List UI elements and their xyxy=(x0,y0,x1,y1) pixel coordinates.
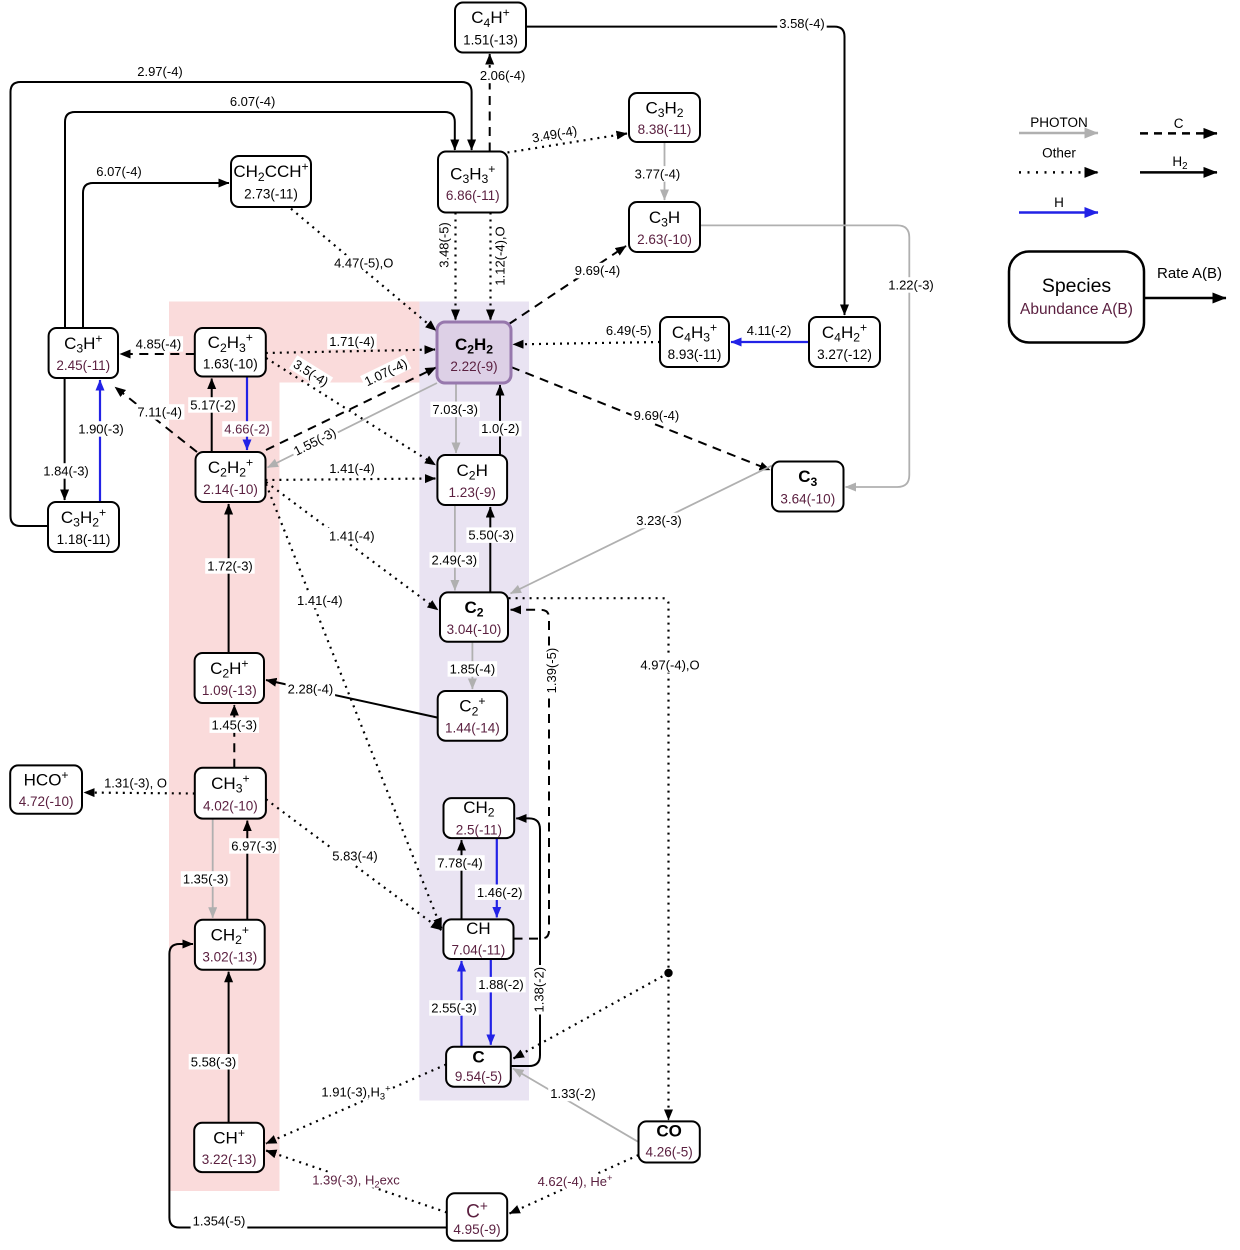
label 4.66(-2) xyxy=(222,421,272,437)
label 1.71(-4) xyxy=(327,334,377,350)
svg-text:5.50(-3): 5.50(-3) xyxy=(468,528,514,543)
svg-text:4.72(-10): 4.72(-10) xyxy=(19,794,74,809)
arrow C3H to C3 (PHOTON) 1.22(-3) xyxy=(700,225,909,487)
svg-text:3.77(-4): 3.77(-4) xyxy=(635,166,681,181)
species C2H+ xyxy=(195,653,264,703)
svg-text:1.85(-4): 1.85(-4) xyxy=(450,662,496,677)
label 1.45(-3) xyxy=(210,717,260,733)
svg-text:2.14(-10): 2.14(-10) xyxy=(203,482,258,497)
arrow C3H2+ to C3H3+ (H2) 2.97(-4) xyxy=(11,82,472,526)
arrow CH2+ to CH3+ (H2) 6.97(-3) xyxy=(246,821,248,920)
species C3H3+ xyxy=(438,152,508,213)
label 1.41(-4) xyxy=(327,528,377,544)
label 6.07(-4) xyxy=(228,94,278,110)
arrow C2H to C2H2 (H2) 1.0(-2) xyxy=(499,385,501,455)
arrow CH3+ to CH2+ (PHOTON) 1.35(-3) xyxy=(212,819,214,918)
label 1.39(-5) xyxy=(544,646,560,696)
label 3.49(-4) xyxy=(529,122,580,146)
species CH xyxy=(443,919,513,959)
arrow C2H2+ to C2H2 (C) 1.07(-4) xyxy=(266,368,436,451)
label 1.35(-3) xyxy=(181,871,231,887)
arrow C2H3+ to C2H2 (Other) 1.71(-4) xyxy=(266,350,435,354)
svg-text:6.07(-4): 6.07(-4) xyxy=(230,94,276,109)
arrow C2H+ to C2H2+ (H2) 1.72(-3) xyxy=(228,504,230,653)
svg-text:3.02(-13): 3.02(-13) xyxy=(202,950,257,965)
label 7.11(-4) xyxy=(135,404,185,420)
label 2.97(-4) xyxy=(135,64,185,79)
label 1.55(-3) xyxy=(289,423,340,459)
svg-text:4.85(-4): 4.85(-4) xyxy=(136,337,182,352)
svg-text:3.27(-12): 3.27(-12) xyxy=(817,347,872,362)
label 9.69(-4) xyxy=(632,408,682,424)
svg-text:3.23(-3): 3.23(-3) xyxy=(636,513,682,528)
arrow CH to C2 (C) 1.39(-5) xyxy=(511,610,549,939)
arrow C3H3+ to C3H2 (Other) 3.49(-4) xyxy=(508,134,628,153)
arrow C to CH (H) 2.55(-3) xyxy=(460,961,462,1047)
svg-text:4.47(-5),O: 4.47(-5),O xyxy=(334,256,393,271)
arrow C3H2 to C3H (PHOTON) 3.77(-4) xyxy=(664,142,666,200)
arrow C2H3+ to C2H2+ (H) 4.66(-2) xyxy=(246,377,248,451)
svg-text:5.17(-2): 5.17(-2) xyxy=(190,398,236,413)
arrow C3H3+ to C2H2 (Other) 1.12(-4),O xyxy=(489,213,491,321)
svg-text:3.58(-4): 3.58(-4) xyxy=(779,16,825,31)
label 1.84(-3) xyxy=(41,463,90,479)
label 1.31(-3), O xyxy=(102,775,169,791)
legend PHOTON arrow xyxy=(1019,115,1098,133)
legend Species box xyxy=(1009,252,1144,343)
legend Rate arrow xyxy=(1144,265,1226,298)
label 1.72(-3) xyxy=(205,558,255,574)
svg-text:3.04(-10): 3.04(-10) xyxy=(447,622,502,637)
svg-text:2.22(-9): 2.22(-9) xyxy=(450,359,497,374)
arrow CH to C (H) 1.88(-2) xyxy=(490,959,492,1045)
svg-text:7.78(-4): 7.78(-4) xyxy=(437,856,483,871)
arrow C2H2 to C2H2+ (PHOTON) 1.55(-3) xyxy=(268,383,438,468)
svg-text:4.62(-4), He+: 4.62(-4), He+ xyxy=(538,1172,613,1189)
arrow C4H+ to C4H2+ (H2) 3.58(-4) xyxy=(526,27,845,315)
label 1.91(-3),H3+ xyxy=(319,1083,392,1102)
arrow CH3+ to CH (Other) 5.83(-4) xyxy=(266,799,441,930)
svg-text:9.54(-5): 9.54(-5) xyxy=(455,1069,502,1084)
legend H2 arrow xyxy=(1140,154,1217,172)
species CH3+ xyxy=(195,768,266,819)
svg-text:Rate A(B): Rate A(B) xyxy=(1157,265,1222,282)
svg-text:7.11(-4): 7.11(-4) xyxy=(137,405,182,420)
svg-text:1.44(-14): 1.44(-14) xyxy=(445,721,500,736)
svg-text:2.45(-11): 2.45(-11) xyxy=(56,358,110,373)
species C3H2 xyxy=(629,93,700,142)
label 1.85(-4) xyxy=(448,661,498,677)
svg-text:3.48(-5): 3.48(-5) xyxy=(437,222,452,268)
legend Other arrow xyxy=(1019,146,1098,173)
svg-text:1.84(-3): 1.84(-3) xyxy=(43,464,89,479)
svg-text:1.31(-3), O: 1.31(-3), O xyxy=(104,776,167,791)
label 1.22(-3) xyxy=(886,277,936,293)
label 1.39(-3), H2exc xyxy=(310,1172,402,1189)
arrow CH3+ to C2H+ (C) 1.45(-3) xyxy=(233,705,235,768)
svg-text:6.97(-3): 6.97(-3) xyxy=(231,839,277,854)
species C2+ xyxy=(438,691,507,741)
svg-text:9.69(-4): 9.69(-4) xyxy=(575,263,621,278)
species C+ xyxy=(447,1193,507,1241)
svg-text:6.49(-5): 6.49(-5) xyxy=(606,323,652,338)
label 4.62(-4), He+ xyxy=(536,1172,615,1189)
label 5.58(-3) xyxy=(189,1054,239,1070)
species C4H2+ xyxy=(809,317,880,367)
svg-text:4.26(-5): 4.26(-5) xyxy=(645,1145,692,1160)
svg-text:2.28(-4): 2.28(-4) xyxy=(288,681,334,696)
arrow CH2CCH+ to C2H2 (Other) 4.47(-5),O xyxy=(291,209,436,331)
svg-text:CH: CH xyxy=(466,919,491,938)
arrow CH+ to CH2+ (H2) 5.58(-3) xyxy=(228,972,230,1123)
svg-text:1.46(-2): 1.46(-2) xyxy=(477,885,523,900)
svg-text:1.38(-2): 1.38(-2) xyxy=(532,967,547,1013)
arrow C3 to C2 (PHOTON) 3.23(-3) xyxy=(511,466,773,594)
species CH+ xyxy=(194,1123,264,1172)
svg-text:1.41(-4): 1.41(-4) xyxy=(329,461,375,476)
species C3 xyxy=(772,462,844,512)
arrow C2 to CO (Other) 4.97(-4),O xyxy=(509,598,669,1120)
svg-text:1.39(-3), H2exc: 1.39(-3), H2exc xyxy=(312,1173,400,1190)
svg-text:1.09(-13): 1.09(-13) xyxy=(202,683,257,698)
svg-text:PHOTON: PHOTON xyxy=(1030,115,1088,130)
svg-text:6.07(-4): 6.07(-4) xyxy=(96,164,142,179)
arrow C2H2+ to C2 (Other) 1.41(-4) xyxy=(266,482,438,610)
arrow C2H2 to C3 (C) 9.69(-4) xyxy=(511,367,770,470)
arrow C2H3+ to C3H+ (C) 4.85(-4) xyxy=(120,353,195,355)
arrow C2H2 to C2H (PHOTON) 7.03(-3) xyxy=(455,383,457,453)
label 4.85(-4) xyxy=(134,336,184,352)
arrow CO to C (PHOTON) 1.33(-2) xyxy=(513,1069,639,1143)
arrow C3H+ to CH2CCH+ (H2) 6.07(-4) xyxy=(83,183,229,328)
svg-text:1.18(-11): 1.18(-11) xyxy=(57,532,111,547)
svg-text:1.23(-9): 1.23(-9) xyxy=(449,485,496,500)
arrow C3H3+ to C4H+ (C) 2.06(-4) xyxy=(489,54,491,152)
label 5.17(-2) xyxy=(188,397,238,413)
label 6.07(-4) xyxy=(94,164,144,180)
species C xyxy=(446,1047,511,1087)
svg-text:1.39(-5): 1.39(-5) xyxy=(544,648,559,694)
arrow C2+ to C2H+ (H2) 2.28(-4) xyxy=(266,680,438,718)
arrow C2H2 to C3H (C) 9.69(-4) xyxy=(509,246,626,324)
species C3H+ xyxy=(49,328,118,378)
arrow C3H3+ to C2H2 (Other) 3.48(-5) xyxy=(454,213,456,321)
arrow C+ to CH2+ (H2) 1.354(-5) xyxy=(169,944,446,1228)
svg-text:1.51(-13): 1.51(-13) xyxy=(463,32,518,47)
species CH2CCH+ xyxy=(231,156,311,207)
label 1.33(-2) xyxy=(548,1086,598,1102)
label 3.58(-4) xyxy=(777,16,827,31)
arrow C to CH2 (H2) 1.38(-2) xyxy=(511,818,540,1066)
label 4.11(-2) xyxy=(744,323,794,339)
svg-text:4.66(-2): 4.66(-2) xyxy=(224,422,270,437)
svg-text:2.73(-11): 2.73(-11) xyxy=(244,187,298,202)
arrow C4H3+ to C2H2 (Other) 6.49(-5) xyxy=(513,342,660,344)
label 6.97(-3) xyxy=(229,838,279,854)
svg-text:1.90(-3): 1.90(-3) xyxy=(78,422,124,437)
label 5.50(-3) xyxy=(466,527,516,543)
svg-text:CO: CO xyxy=(656,1121,682,1140)
svg-text:8.93(-11): 8.93(-11) xyxy=(668,347,722,362)
arrow C2H2+ to C2H (Other) 1.41(-4) xyxy=(265,479,435,481)
species C2H3+ xyxy=(195,328,266,377)
label 1.88(-2) xyxy=(476,977,526,993)
arrow C2 to C2H (H2) 5.50(-3) xyxy=(489,507,491,592)
label 5.83(-4) xyxy=(330,848,380,864)
species C2H2 xyxy=(437,322,511,383)
label 3.23(-3) xyxy=(634,513,684,529)
svg-text:1.41(-4): 1.41(-4) xyxy=(297,593,343,608)
species HCO+ xyxy=(10,765,82,813)
svg-text:3.22(-13): 3.22(-13) xyxy=(202,1152,257,1167)
svg-text:4.02(-10): 4.02(-10) xyxy=(203,798,258,813)
pink highlight band (ion column) xyxy=(169,302,420,1192)
svg-text:C: C xyxy=(472,1048,484,1067)
svg-text:6.86(-11): 6.86(-11) xyxy=(446,188,500,203)
arrow C2H to C2 (PHOTON) 2.49(-3) xyxy=(454,505,456,590)
label 3.77(-4) xyxy=(633,166,683,182)
svg-text:Abundance A(B): Abundance A(B) xyxy=(1020,301,1133,318)
arrow C2H2+ to C2H3+ (H2) 5.17(-2) xyxy=(211,379,213,453)
label 2.06(-4) xyxy=(478,68,527,84)
svg-text:1.41(-4): 1.41(-4) xyxy=(329,528,375,543)
svg-text:2.55(-3): 2.55(-3) xyxy=(431,1001,477,1016)
svg-text:CH2CCH+: CH2CCH+ xyxy=(233,160,308,184)
svg-text:1.72(-3): 1.72(-3) xyxy=(207,559,253,574)
arrow C2H2+ to CH (Other) 1.41(-4) xyxy=(266,484,441,929)
svg-text:1.22(-3): 1.22(-3) xyxy=(888,278,934,293)
svg-text:C: C xyxy=(1174,116,1184,131)
svg-text:8.38(-11): 8.38(-11) xyxy=(638,122,692,137)
svg-text:2.5(-11): 2.5(-11) xyxy=(456,822,502,837)
svg-text:4.11(-2): 4.11(-2) xyxy=(747,323,792,338)
label 1.41(-4) xyxy=(327,461,377,477)
label 1.90(-3) xyxy=(76,421,126,437)
arrow CO to C+ (Other) 4.62(-4),He+ xyxy=(510,1155,639,1214)
svg-text:1.45(-3): 1.45(-3) xyxy=(212,718,258,733)
species C2 xyxy=(440,592,508,641)
arrow CH3+ to HCO+ (Other) 1.31(-3),O xyxy=(84,793,195,794)
purple highlight band (neutral column) xyxy=(419,302,529,1101)
arrow CH to CH2 (H2) 7.78(-4) xyxy=(461,840,463,919)
svg-text:7.04(-11): 7.04(-11) xyxy=(452,943,506,958)
svg-text:2.63(-10): 2.63(-10) xyxy=(637,232,692,247)
svg-text:Other: Other xyxy=(1042,146,1076,161)
label 1.354(-5) xyxy=(191,1213,248,1229)
species CH2+ xyxy=(195,920,265,970)
svg-text:5.58(-3): 5.58(-3) xyxy=(191,1054,237,1069)
arrow junction to C (Other) xyxy=(514,973,669,1059)
svg-text:3.64(-10): 3.64(-10) xyxy=(780,491,835,506)
svg-text:2.49(-3): 2.49(-3) xyxy=(432,553,478,568)
svg-text:1.63(-10): 1.63(-10) xyxy=(203,357,258,372)
label 2.28(-4) xyxy=(286,681,336,697)
svg-text:1.33(-2): 1.33(-2) xyxy=(550,1086,596,1101)
label 2.55(-3) xyxy=(429,1000,479,1016)
label 1.41(-4) xyxy=(295,593,345,609)
arrow C3H+ to C3H2+ (H2) 1.84(-3) xyxy=(64,378,66,500)
arrow C2 to C2+ (PHOTON) 1.85(-4) xyxy=(471,642,473,689)
label 1.07(-4) xyxy=(360,354,411,390)
arrow C4H2+ to C4H3+ (H) 4.11(-2) xyxy=(731,341,809,343)
species C3H xyxy=(629,202,700,252)
svg-text:1.88(-2): 1.88(-2) xyxy=(478,977,524,992)
svg-text:Species: Species xyxy=(1042,275,1112,297)
label 1.0(-2) xyxy=(479,421,521,437)
arrow C3H+ to C3H3+ (H2) 6.07(-4) xyxy=(65,112,455,328)
species C2H2+ xyxy=(196,452,266,502)
label 3.5(-4) xyxy=(289,355,333,391)
label 7.78(-4) xyxy=(435,855,485,871)
label 4.97(-4),O xyxy=(638,657,701,673)
species CO xyxy=(639,1121,700,1162)
svg-text:4.95(-9): 4.95(-9) xyxy=(453,1222,500,1237)
species C4H3+ xyxy=(660,317,729,367)
legend H arrow xyxy=(1019,195,1098,213)
label 6.49(-5) xyxy=(604,323,654,339)
label 3.48(-5) xyxy=(436,220,452,269)
species C3H2+ xyxy=(48,502,119,552)
label 7.03(-3) xyxy=(430,402,480,418)
svg-text:7.03(-3): 7.03(-3) xyxy=(432,402,478,417)
svg-text:9.69(-4): 9.69(-4) xyxy=(634,408,680,423)
svg-text:1.0(-2): 1.0(-2) xyxy=(481,421,519,436)
species C2H xyxy=(437,455,507,505)
label 2.49(-3) xyxy=(430,552,480,568)
label 1.38(-2) xyxy=(531,965,547,1015)
species CH2 xyxy=(444,798,515,838)
legend C arrow xyxy=(1140,116,1217,133)
label 1.12(-4),O xyxy=(492,224,508,287)
svg-text:1.35(-3): 1.35(-3) xyxy=(183,872,229,887)
svg-text:1.354(-5): 1.354(-5) xyxy=(193,1214,246,1229)
label 1.46(-2) xyxy=(475,885,525,901)
junction node (C2+O products split) xyxy=(664,969,672,977)
arrow C to CH+ (Other) 1.91(-3),H3+ xyxy=(266,1065,446,1144)
species C4H+ xyxy=(455,3,526,53)
arrow CH2 to CH (H) 1.46(-2) xyxy=(496,838,498,917)
arrow C3H2+ to C3H+ (H) 1.90(-3) xyxy=(99,380,101,502)
svg-text:2.06(-4): 2.06(-4) xyxy=(480,68,526,83)
arrow C+ to CH+ (Other) 1.39(-3),H2exc xyxy=(266,1151,447,1213)
arrow C2H3+ to C2H (Other) 3.5(-4) xyxy=(266,358,436,465)
arrow C2H2+ to C3H+ (C) 7.11(-4) xyxy=(115,387,197,452)
svg-text:5.83(-4): 5.83(-4) xyxy=(332,849,378,864)
svg-text:4.97(-4),O: 4.97(-4),O xyxy=(640,658,699,673)
svg-text:H: H xyxy=(1054,195,1064,210)
svg-text:2.97(-4): 2.97(-4) xyxy=(137,64,183,79)
label 4.47(-5),O xyxy=(332,255,395,271)
svg-text:1.12(-4),O: 1.12(-4),O xyxy=(493,226,508,285)
svg-text:1.71(-4): 1.71(-4) xyxy=(329,334,375,349)
label 9.69(-4) xyxy=(573,263,623,279)
